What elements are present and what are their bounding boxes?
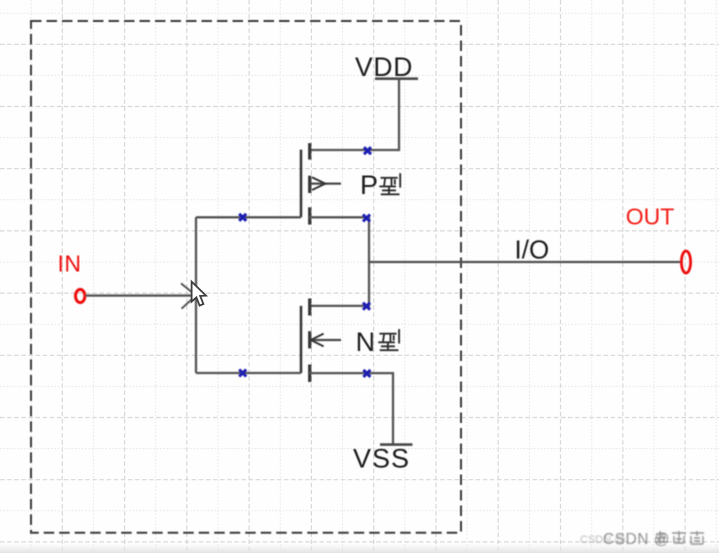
label CJK xing glyph (N) — [378, 329, 399, 350]
svg-text:IN: IN — [58, 251, 82, 277]
wire gate top branch — [196, 216, 301, 218]
wire NMOS source to VSS — [309, 373, 393, 444]
label CJK xing glyph (P) — [379, 173, 400, 194]
wire IN — [86, 294, 196, 296]
wire output I/O net — [369, 261, 681, 263]
transistor Q1 PMOS — [301, 143, 341, 225]
terminal IN — [76, 289, 85, 302]
junction X4 — [363, 370, 370, 377]
wire IN arrowhead — [181, 283, 196, 308]
wire NMOS drain — [309, 262, 369, 306]
wire VDD drop — [309, 80, 399, 151]
svg-text:I/O: I/O — [515, 234, 550, 264]
junction X2 — [363, 215, 370, 222]
wire gate bottom branch — [196, 372, 301, 374]
power rail VSS — [380, 443, 413, 446]
svg-text:P: P — [360, 170, 378, 200]
power rail VDD — [375, 77, 418, 80]
watermark CSDN — [580, 531, 704, 548]
junction X5 — [239, 214, 246, 221]
mouse cursor — [192, 282, 206, 306]
svg-text:VSS: VSS — [353, 444, 410, 474]
wire gate bus vertical — [195, 217, 197, 373]
svg-text:N: N — [356, 327, 376, 357]
terminal OUT — [681, 251, 690, 273]
border frame (dashed selection rectangle) — [31, 21, 461, 533]
junction X3 — [363, 303, 370, 310]
junction X6 — [239, 370, 246, 377]
transistor Q2 NMOS — [301, 299, 341, 383]
svg-text:VDD: VDD — [355, 52, 413, 82]
svg-text:OUT: OUT — [626, 204, 675, 230]
junction X1 — [364, 147, 371, 154]
wire PMOS drain — [309, 217, 369, 262]
